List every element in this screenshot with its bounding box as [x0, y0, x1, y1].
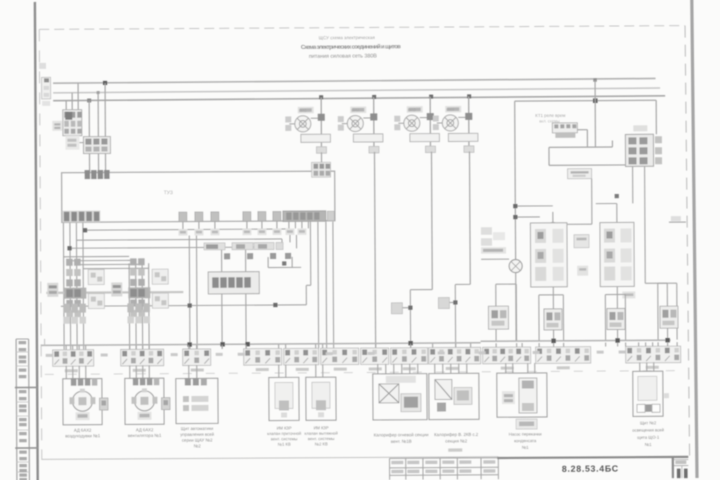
distribution bus N: [41, 335, 671, 345]
relay K0 tail wires: [633, 166, 668, 340]
label Y2: [305, 425, 338, 446]
starter branch: [338, 97, 383, 153]
terminal strip XT3: [183, 349, 211, 366]
title block right cells: [674, 460, 689, 479]
starter feed wires down: [321, 151, 470, 348]
bus L3: [53, 96, 665, 101]
svg-text:АД 6АХ2: АД 6АХ2: [74, 428, 92, 433]
bus L1: [53, 78, 655, 83]
svg-text:КТ1 реле врем: КТ1 реле врем: [535, 113, 565, 118]
A1 top-right terminals: [312, 162, 331, 177]
svg-text:щита ЩО-1: щита ЩО-1: [637, 435, 660, 440]
svg-text:вентилятора №1: вентилятора №1: [128, 433, 162, 438]
starter branch: [433, 96, 478, 152]
svg-text:№1 КВ: №1 КВ: [278, 442, 291, 447]
label panel: [180, 426, 215, 449]
above-table small text: [448, 448, 462, 451]
svg-text:Калорифер В. 2КВ с.2: Калорифер В. 2КВ с.2: [434, 432, 479, 437]
title block table: [389, 458, 498, 480]
svg-text:секция №2: секция №2: [445, 438, 467, 443]
svg-text:клапан вытяжной: клапан вытяжной: [305, 431, 338, 436]
terminal strip XT7: [361, 348, 389, 365]
nest junctions: [67, 228, 87, 250]
A1 top-left terminals: [85, 170, 110, 179]
sub-circuit small box: [568, 169, 592, 179]
svg-text:управления всей: управления всей: [180, 432, 214, 437]
starter branch: [394, 97, 439, 153]
label M2: [128, 427, 162, 438]
sheet right edge: [692, 0, 697, 478]
bend branch under QS4: [438, 284, 470, 347]
terminal strip XT10: [483, 347, 531, 364]
starter branches QS1-QS4: [285, 97, 330, 153]
feeder drop wires: [66, 83, 106, 172]
pump unit P1: [497, 373, 547, 429]
bus N junctions: [187, 338, 669, 347]
svg-text:Щит №2: Щит №2: [640, 420, 657, 425]
A1 tab stub wires: [183, 221, 309, 229]
svg-text:серии ЩАУ №2: серии ЩАУ №2: [182, 437, 213, 442]
bus L2: [53, 88, 660, 93]
branch loop S4: [658, 283, 678, 340]
motor M1: [63, 378, 108, 425]
control sub-circuit top line: [515, 80, 657, 104]
thermal relay KK3: [208, 272, 259, 294]
label Y1: [267, 425, 301, 446]
terminal strip XT9: [429, 347, 481, 364]
nest wires from A1 to groups: [63, 221, 290, 349]
svg-text:воздуходувки №1: воздуходувки №1: [65, 433, 101, 438]
label M1: [65, 428, 101, 439]
revision margin strip: [15, 339, 38, 480]
contactor KM0: [65, 135, 110, 153]
cabinet boundary dashed: [45, 371, 685, 375]
svg-text:№1: №1: [645, 442, 653, 447]
sheet title text: [301, 35, 402, 60]
terminal strip XT1: [53, 350, 94, 367]
terminal strip XT6: [321, 348, 359, 365]
aux box between relays: [574, 216, 681, 276]
svg-text:ИМ КЗР: ИМ КЗР: [314, 425, 329, 430]
control unit A1 box: [62, 171, 335, 222]
terminal strip XT4: [244, 348, 282, 365]
svg-text:Щит автоматики: Щит автоматики: [181, 426, 214, 431]
svg-text:конденсата: конденсата: [514, 438, 537, 443]
svg-text:№1: №1: [522, 445, 530, 450]
circuit breaker QF1: [63, 110, 82, 136]
svg-text:освещения всей: освещения всей: [632, 427, 664, 432]
valve actuator Y2: [306, 377, 336, 420]
middle long verticals: [60, 221, 333, 350]
svg-text:Калорифер огневой секции: Калорифер огневой секции: [374, 432, 429, 437]
terminal strip XT8: [391, 348, 428, 365]
bus junctions: [87, 78, 597, 103]
sub-circuit verticals: [515, 100, 657, 259]
svg-text:ВН2: ВН2: [351, 108, 360, 113]
sheet left edge: [35, 2, 38, 480]
svg-text:вент. №1В: вент. №1В: [391, 439, 412, 444]
svg-text:вент. системы: вент. системы: [308, 436, 335, 441]
svg-text:Схема электрических соединений: Схема электрических соединений и щитов: [301, 43, 401, 51]
label lighting: [632, 420, 664, 447]
terminal strip XT2: [121, 349, 164, 366]
label E2: [434, 432, 479, 444]
small labels right section: [622, 291, 635, 298]
right section junctions: [513, 194, 619, 227]
supply input terminal XT0: [39, 63, 51, 106]
svg-text:№2: №2: [194, 443, 202, 448]
relay A2: [530, 223, 567, 287]
branch loop S1: [488, 284, 516, 341]
branch loop S2: [539, 295, 564, 341]
cross band wire: [46, 291, 183, 294]
svg-text:АД 6АХ2: АД 6АХ2: [136, 427, 154, 432]
right section connector X2: [481, 227, 506, 254]
lighting panel box: [633, 371, 669, 416]
label E1: [374, 432, 429, 444]
QF1 label box: [52, 121, 62, 131]
terminal strip XT5: [284, 348, 319, 365]
bend branch under QS3: [391, 290, 432, 348]
contact group KK1: [47, 259, 104, 324]
motor M2: [125, 378, 170, 425]
svg-text:вент. системы: вент. системы: [271, 436, 298, 441]
contact bars row: [204, 242, 291, 259]
valve actuator Y1: [269, 377, 299, 420]
automation panel box: [176, 378, 218, 424]
A1 bottom terminal tabs: [179, 211, 335, 222]
indicator lamp HL1: [509, 260, 522, 273]
terminal strip small labels: [46, 350, 659, 372]
heater unit E1: [373, 374, 427, 420]
svg-text:ВН3: ВН3: [408, 107, 417, 112]
svg-text:ЩСУ схема электрическая: ЩСУ схема электрическая: [319, 35, 376, 40]
label P1: [509, 431, 543, 449]
starter labels: [299, 107, 455, 113]
box feed wires: [66, 342, 677, 379]
table small marks: [391, 460, 495, 473]
A1 bottom-left terminals: [62, 211, 100, 223]
relay block K0: [625, 125, 662, 166]
mid junctions: [187, 261, 286, 307]
svg-text:8.28.53.4БС: 8.28.53.4БС: [562, 463, 619, 473]
svg-text:ТУЗ: ТУЗ: [164, 190, 173, 196]
svg-text:ИМ КЗР: ИМ КЗР: [277, 425, 292, 430]
terminal strip XT12: [626, 346, 681, 363]
contact group KK2: [111, 258, 168, 323]
tab label boxes: [178, 228, 306, 235]
terminal strip XT11: [536, 347, 591, 364]
right section wiring: [481, 178, 687, 341]
svg-text:ВН1: ВН1: [299, 108, 308, 113]
svg-text:Насос перекачки: Насос перекачки: [509, 431, 543, 436]
title block frame dark: [497, 456, 688, 479]
branch loop S3: [605, 294, 625, 340]
svg-text:№2 КВ: №2 КВ: [315, 441, 328, 446]
svg-text:питания силовая сеть 380В: питания силовая сеть 380В: [309, 53, 377, 59]
relay A3: [600, 222, 634, 286]
heater unit E2: [429, 373, 479, 419]
drawing number text: [562, 463, 619, 473]
svg-text:ВН4: ВН4: [446, 107, 455, 112]
timer contact block KT1: [535, 113, 577, 138]
svg-text:клапан приточной: клапан приточной: [267, 431, 301, 436]
